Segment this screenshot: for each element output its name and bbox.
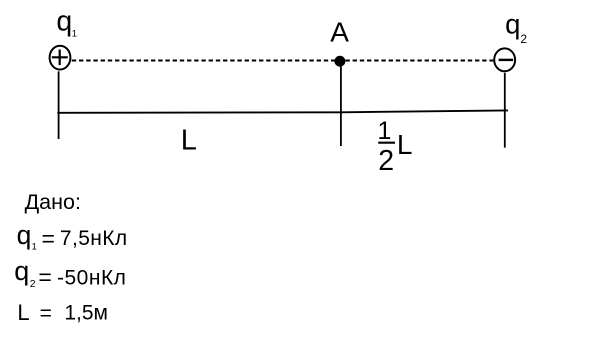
svg-text:q: q bbox=[56, 6, 72, 38]
svg-text:q: q bbox=[505, 9, 520, 40]
measurement baseline bbox=[57, 110, 508, 112]
svg-text:=: = bbox=[40, 302, 52, 325]
plus sign horizontal stroke bbox=[52, 56, 68, 58]
right tick vertical line bbox=[504, 73, 506, 148]
svg-text:1: 1 bbox=[32, 241, 37, 251]
svg-text:-50нКл: -50нКл bbox=[57, 267, 126, 290]
svg-text:L: L bbox=[181, 124, 197, 156]
svg-text:=: = bbox=[42, 226, 55, 252]
svg-text:1: 1 bbox=[72, 28, 77, 39]
plus sign vertical stroke bbox=[59, 50, 61, 66]
fraction bar bbox=[378, 142, 395, 144]
svg-text:7,5нКл: 7,5нКл bbox=[60, 227, 128, 250]
svg-text:q: q bbox=[14, 256, 29, 286]
point A dot bbox=[334, 56, 345, 67]
minus sign stroke bbox=[499, 59, 513, 61]
svg-text:2: 2 bbox=[520, 32, 527, 46]
svg-text:Дано:: Дано: bbox=[25, 190, 81, 214]
svg-text:1,5м: 1,5м bbox=[64, 301, 108, 324]
svg-text:2: 2 bbox=[30, 278, 36, 290]
svg-text:2: 2 bbox=[378, 145, 394, 177]
svg-text:=: = bbox=[38, 264, 51, 290]
positive charge symbol circle bbox=[50, 46, 71, 70]
svg-text:L: L bbox=[397, 129, 413, 160]
svg-text:q: q bbox=[17, 220, 32, 250]
dashed line between charges bbox=[72, 60, 494, 62]
middle tick vertical line under A bbox=[340, 64, 342, 147]
left tick vertical line bbox=[58, 71, 60, 139]
svg-text:1: 1 bbox=[378, 117, 392, 145]
svg-text:L: L bbox=[17, 300, 29, 325]
negative charge symbol circle bbox=[494, 48, 515, 71]
svg-text:A: A bbox=[330, 16, 349, 47]
